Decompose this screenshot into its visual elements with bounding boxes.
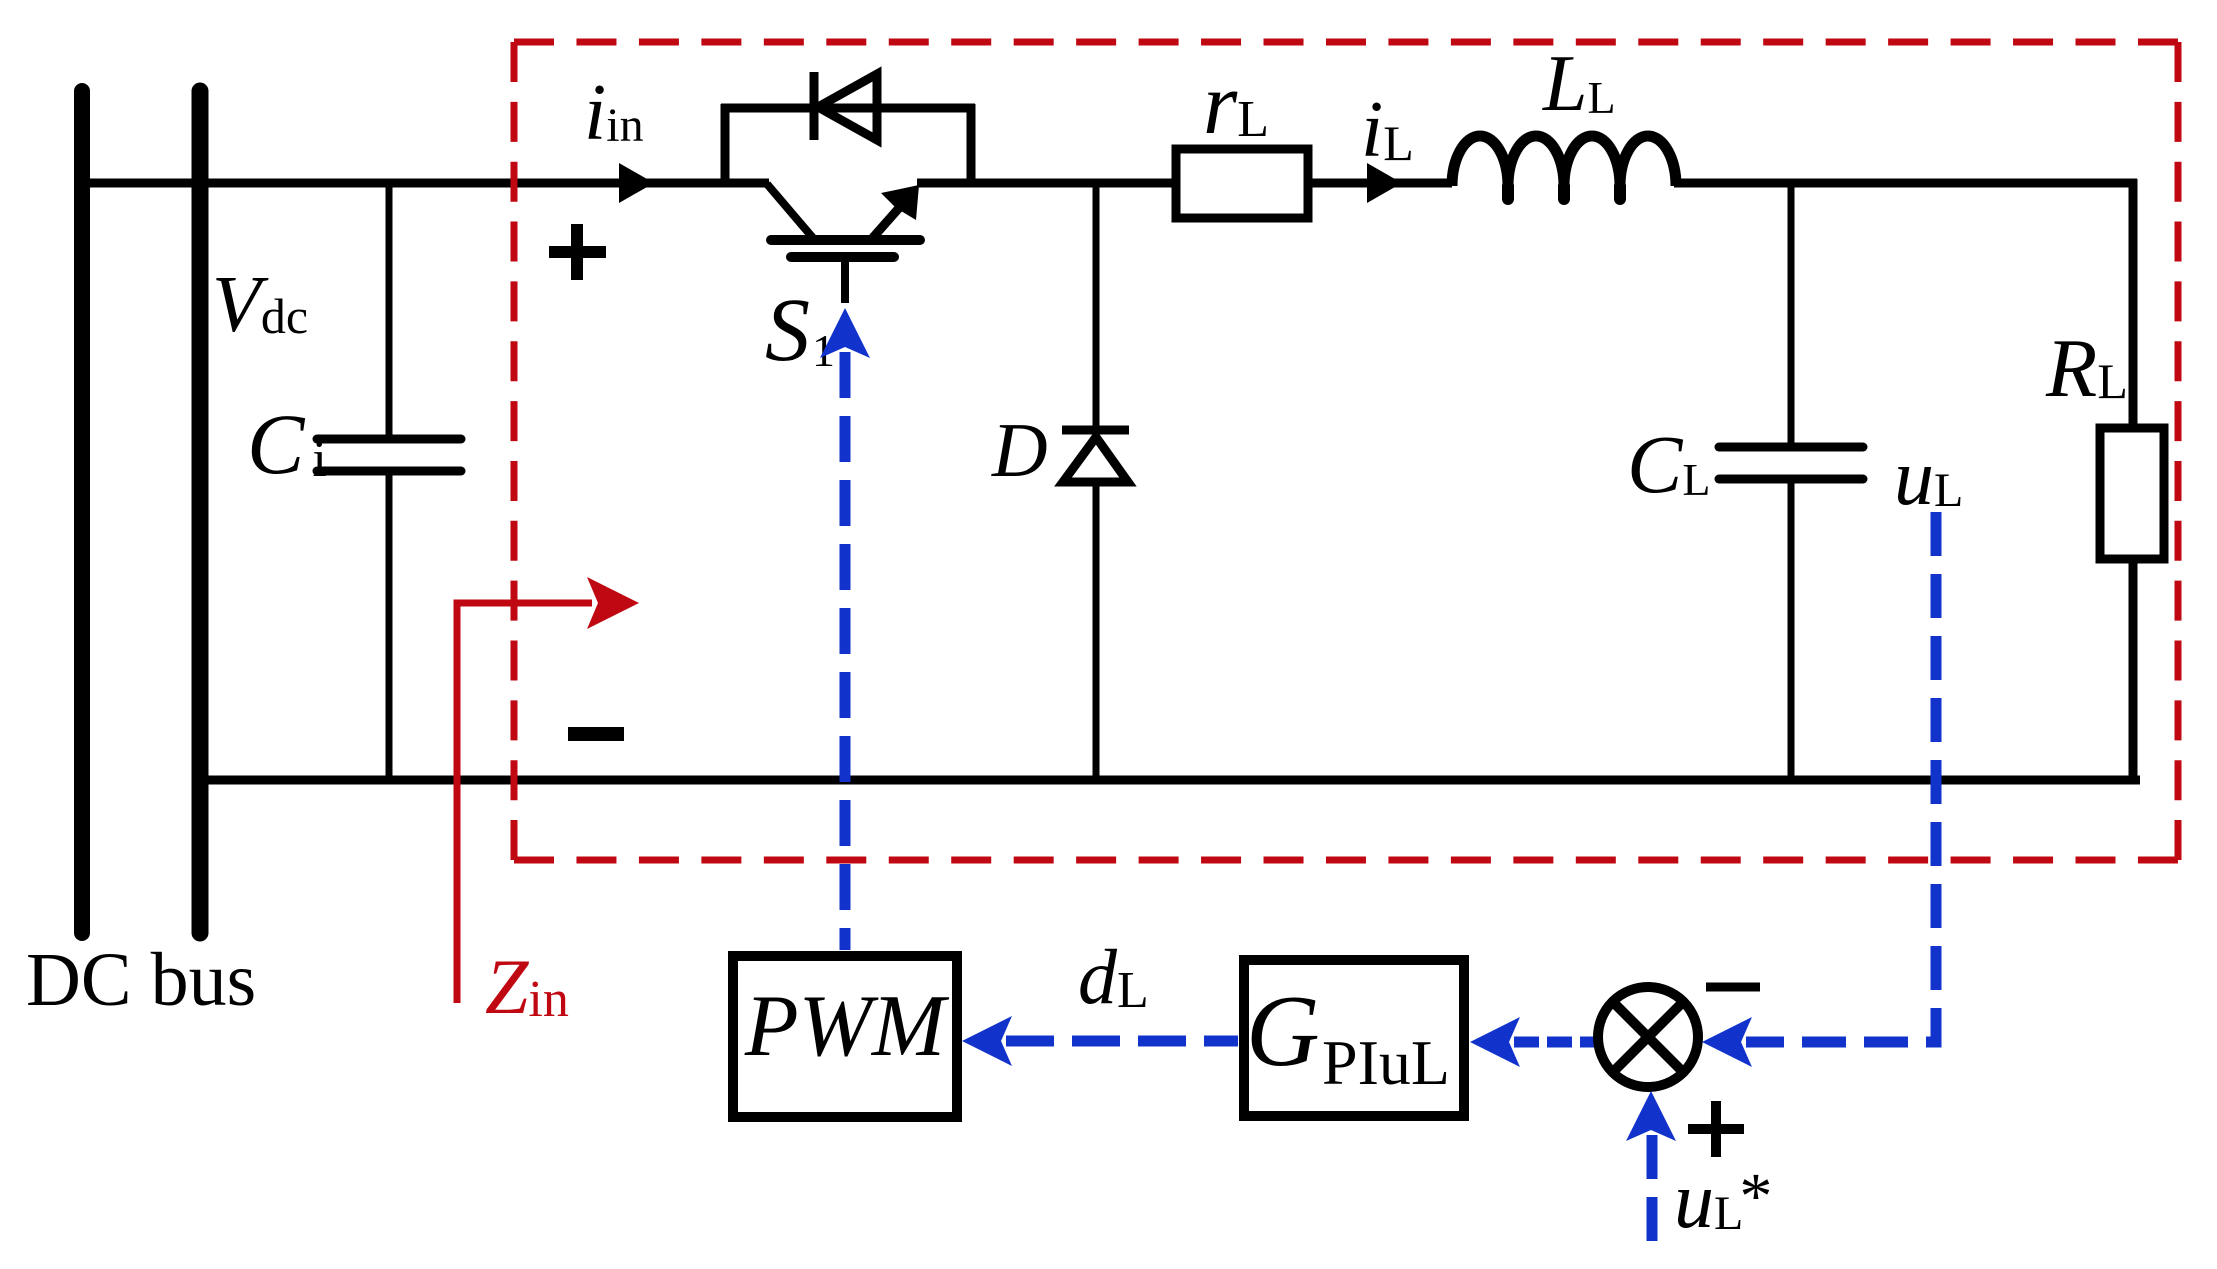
- transistor S1 collector diagonal: [767, 184, 813, 238]
- transistor S1 right riser: [967, 104, 976, 187]
- minus sign at summer: [1706, 983, 1760, 992]
- wire top rail left segment: [82, 179, 769, 188]
- reference uL* blue dashed arrow: [1626, 1091, 1676, 1141]
- arrow iin: [619, 163, 654, 203]
- wire bottom rail: [200, 776, 2140, 785]
- polarity minus: [568, 727, 624, 741]
- transistor S1 loop top wire: [721, 104, 975, 113]
- summing junction: [1598, 987, 1698, 1087]
- block G_PIuL: [1244, 960, 1464, 1116]
- wire top rail segment rL to LL: [1311, 179, 1452, 188]
- transistor S1 collector bar: [771, 235, 920, 245]
- blue dashed arrow G to PWM: [962, 1016, 1012, 1066]
- svg-text:PIuL: PIuL: [1322, 1027, 1450, 1098]
- transistor S1 (IGBT) left riser: [721, 104, 730, 187]
- arrow iL: [1367, 163, 1402, 203]
- feedback uL blue dashed line: [1702, 1017, 1752, 1067]
- wire top rail segment S1 to rL: [917, 179, 1173, 188]
- wire Ci bottom lead: [386, 473, 393, 780]
- DC bus bar right: [192, 91, 209, 933]
- red dashed converter boundary box: [514, 42, 2178, 860]
- wire CL bottom lead: [1788, 481, 1795, 780]
- polarity plus: [549, 224, 606, 280]
- capacitor CL: [1719, 447, 1863, 479]
- wire top rail segment LL to corner: [1674, 179, 2137, 188]
- resistor rL: [1176, 149, 1308, 218]
- transistor S1 emitter arrow: [881, 185, 919, 220]
- DC bus bar left: [74, 91, 90, 933]
- capacitor Ci: [317, 439, 461, 471]
- antiparallel diode of S1: [814, 72, 877, 140]
- blue dashed arrow summer to G: [1470, 1017, 1520, 1067]
- block PWM: [733, 956, 957, 1117]
- resistor RL: [2100, 428, 2164, 559]
- transistor S1 emitter diagonal: [869, 208, 899, 242]
- diode D bottom lead: [1093, 482, 1100, 780]
- svg-text:G: G: [1246, 975, 1320, 1088]
- svg-text:D: D: [991, 407, 1048, 493]
- node Ci top lead: [386, 183, 393, 437]
- diode D: [1062, 430, 1129, 482]
- gate drive blue dashed line: [840, 352, 851, 950]
- wire right drop to RL: [2129, 179, 2138, 424]
- node CL top lead: [1788, 183, 1795, 445]
- plus sign at summer: [1688, 1101, 1744, 1157]
- impedance probe arrow Zin: [457, 577, 639, 1003]
- svg-text:DC bus: DC bus: [26, 938, 256, 1022]
- gate drive blue arrow head: [820, 308, 870, 358]
- transistor S1 gate bar: [791, 252, 894, 262]
- diode D top lead: [1093, 183, 1100, 430]
- transistor S1 gate lead: [841, 257, 849, 303]
- svg-text:PWM: PWM: [744, 978, 950, 1075]
- inductor LL: [1452, 136, 1676, 186]
- wire RL to bottom rail: [2129, 563, 2138, 780]
